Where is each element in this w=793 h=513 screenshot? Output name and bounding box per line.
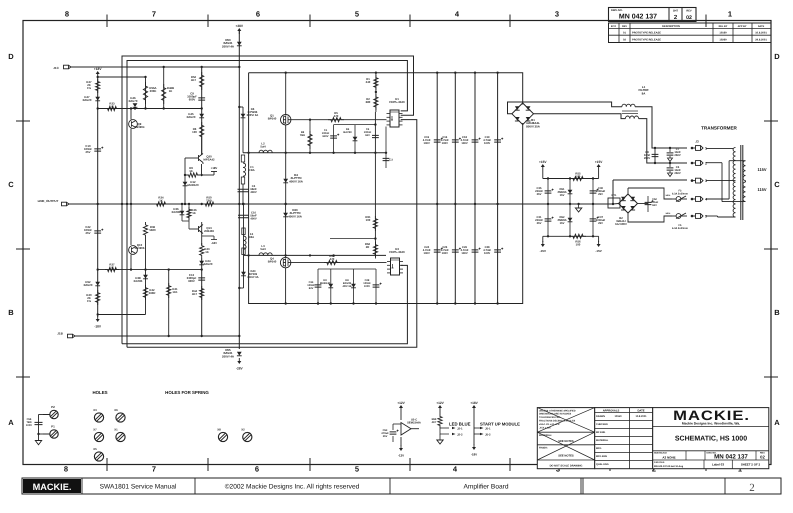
diode D24 BAV20 bbox=[199, 261, 204, 265]
resistor R50 TBD on line output bbox=[203, 202, 216, 206]
connector J3 pin 1 bbox=[693, 147, 696, 149]
diode D50 BAV21 bbox=[237, 42, 242, 46]
svg-text:MFG: MFG bbox=[596, 447, 601, 450]
zener D52B ZMM15 bbox=[569, 204, 571, 236]
wire loop bottom inner bbox=[127, 120, 417, 348]
svg-text:29.8.2001: 29.8.2001 bbox=[755, 39, 767, 42]
wire LED J2-2 bbox=[440, 428, 449, 434]
capacitor C8 10nF 250V bbox=[654, 148, 656, 163]
transistor Q13 2N5406 bbox=[201, 222, 203, 245]
svg-text:600V/ 3A: 600V/ 3A bbox=[247, 276, 258, 279]
-15V arrow left bbox=[542, 236, 544, 242]
svg-text:Label 03: Label 03 bbox=[712, 463, 724, 467]
svg-text:MF ENG: MF ENG bbox=[596, 431, 605, 434]
capacitor C37 2200uF bbox=[592, 204, 594, 236]
title block approvals table bbox=[595, 408, 653, 469]
resistor R36 5600 bbox=[143, 222, 147, 238]
svg-text:REV: REV bbox=[622, 25, 627, 28]
wire B2 to C52 bbox=[638, 203, 649, 205]
svg-text:35V: 35V bbox=[383, 435, 388, 438]
wire AC line lower to bridge bbox=[534, 114, 626, 119]
wire lower pair to Q13 base bbox=[182, 220, 189, 222]
svg-text:HCPL-3120: HCPL-3120 bbox=[389, 100, 405, 104]
svg-text:X3: X3 bbox=[93, 408, 97, 412]
capacitor C22 100nF bbox=[94, 231, 101, 233]
svg-text:TRANSFORMER: TRANSFORMER bbox=[701, 126, 737, 131]
svg-text:SWA1801 Service Manual: SWA1801 Service Manual bbox=[100, 484, 177, 491]
wire R61 junction branch bbox=[330, 238, 375, 240]
svg-text:BAT85: BAT85 bbox=[172, 210, 181, 214]
svg-text:BAV99: BAV99 bbox=[343, 131, 352, 134]
wire J3 pin2 to secondary bottom bbox=[706, 162, 722, 164]
diode D12 MUR120 bbox=[183, 182, 188, 186]
svg-text:25V: 25V bbox=[598, 193, 603, 196]
svg-text:±1/64 .XX ±.01 ±0.5°: ±1/64 .XX ±.01 ±0.5° bbox=[539, 423, 560, 426]
svg-text:240: 240 bbox=[366, 80, 371, 84]
capacitor C10 100nF bbox=[94, 149, 101, 151]
capacitor column x=455.3 wire bbox=[454, 73, 456, 304]
svg-text:5uH: 5uH bbox=[260, 247, 265, 251]
bridge rectifier B2 GBU4J bbox=[619, 194, 638, 213]
capacitor C7 10nF chassis bbox=[669, 148, 671, 152]
resistor R6 100 bbox=[200, 122, 204, 140]
svg-text:25V: 25V bbox=[537, 222, 542, 225]
title block size-scale row bbox=[653, 450, 769, 452]
-28V supply arrow bbox=[237, 361, 241, 364]
svg-text:HCPL-3120: HCPL-3120 bbox=[389, 250, 405, 254]
svg-text:J5-1: J5-1 bbox=[485, 427, 491, 431]
transistor Q10 2N3906 bbox=[130, 204, 132, 245]
svg-text:680: 680 bbox=[366, 100, 371, 104]
svg-text:2: 2 bbox=[705, 162, 707, 166]
svg-text:400V/ 16A: 400V/ 16A bbox=[288, 214, 303, 218]
inductor L2 5uH on rail bbox=[259, 150, 272, 153]
resistor R56A 300K bbox=[145, 77, 147, 109]
resistor R40 2K bbox=[96, 290, 100, 305]
svg-text:APP BY: APP BY bbox=[738, 25, 747, 28]
+18V tap at Q30 bbox=[213, 172, 215, 176]
svg-text:Mackie Designs Inc. Woodinv: Mackie Designs Inc. Woodinville, Wa. bbox=[682, 422, 740, 426]
svg-text:©2002 Mackie Designs Inc. All: ©2002 Mackie Designs Inc. All rights res… bbox=[225, 484, 360, 491]
svg-text:X5: X5 bbox=[93, 447, 97, 451]
svg-text:300K: 300K bbox=[150, 89, 157, 93]
title block sheet row bbox=[703, 460, 705, 469]
wire y=314.5 bottom-left bbox=[98, 314, 146, 316]
capacitor C25 4.7mF bbox=[452, 250, 459, 252]
svg-text:100V: 100V bbox=[364, 285, 370, 288]
svg-text:SEE NOTES: SEE NOTES bbox=[558, 454, 574, 457]
svg-text:P1: P1 bbox=[51, 425, 55, 429]
wire J3 pin3 to primary center tap bbox=[706, 180, 736, 182]
svg-text:TOLERANCES PER:: TOLERANCES PER: bbox=[539, 416, 561, 419]
svg-text:UNLESS OTHERWISE SPECIFIED: UNLESS OTHERWISE SPECIFIED bbox=[539, 409, 576, 412]
svg-text:LINE_OUTPUT: LINE_OUTPUT bbox=[38, 199, 59, 203]
svg-text:J2-2: J2-2 bbox=[457, 433, 463, 437]
module upper rail y=152.8 bbox=[243, 152, 386, 154]
svg-text:250V: 250V bbox=[644, 157, 650, 160]
capacitor C6 10nF chassis bbox=[669, 163, 671, 167]
svg-text:SEE NOTES: SEE NOTES bbox=[558, 440, 574, 443]
svg-text:1K: 1K bbox=[169, 89, 173, 93]
svg-text:.XXX ±.005: .XXX ±.005 bbox=[539, 426, 551, 429]
svg-text:100V: 100V bbox=[484, 252, 490, 255]
svg-text:A: A bbox=[8, 418, 14, 427]
capacitor column x=475 wire bbox=[474, 73, 476, 304]
diode D36 BAT85 lower pair bbox=[181, 204, 183, 221]
transformer primary winding bbox=[706, 147, 733, 149]
svg-text:+18V: +18V bbox=[211, 166, 218, 170]
svg-text:MUR120: MUR120 bbox=[187, 183, 198, 187]
resistor R47 bbox=[96, 79, 100, 93]
-12V arrow LED driver bbox=[400, 437, 402, 446]
svg-text:J1C: J1C bbox=[53, 66, 59, 70]
svg-text:SEM2344A: SEM2344A bbox=[407, 422, 421, 425]
svg-text:15V: 15V bbox=[560, 222, 565, 225]
svg-text:100V: 100V bbox=[424, 252, 430, 255]
svg-text:600V/ 3A: 600V/ 3A bbox=[247, 113, 259, 117]
wire L1 to J3 pin1 bbox=[635, 107, 687, 148]
svg-text:+12V: +12V bbox=[436, 401, 444, 405]
snubber resistor R8 upper bbox=[309, 120, 311, 153]
resistor R2 680 bbox=[374, 94, 378, 110]
svg-text:1K: 1K bbox=[189, 169, 193, 173]
wire J3 pin4 to secondary top bbox=[706, 198, 729, 200]
svg-text:MN 042 137: MN 042 137 bbox=[619, 14, 657, 21]
svg-text:C: C bbox=[774, 180, 780, 189]
svg-text:5: 5 bbox=[355, 10, 359, 19]
svg-text:25V: 25V bbox=[86, 231, 91, 235]
diode D55 BAV21 bbox=[237, 352, 242, 356]
diode D6 BYW96 bbox=[239, 106, 243, 108]
svg-text:3: 3 bbox=[705, 179, 707, 183]
diode D30 ZLPT7N lower bbox=[283, 213, 288, 217]
svg-text:470: 470 bbox=[330, 257, 335, 261]
resistor R61 100 mid column bbox=[373, 216, 377, 231]
svg-text:wire: wire bbox=[666, 194, 671, 197]
capacitor C16 4.7mF bbox=[452, 140, 459, 142]
svg-text:HOLES: HOLES bbox=[92, 390, 107, 395]
svg-text:5: 5 bbox=[355, 465, 359, 474]
wire LINE_OUTPUT main horizontal bbox=[69, 203, 613, 205]
svg-text:100V: 100V bbox=[424, 142, 430, 145]
svg-text:TBD: TBD bbox=[206, 199, 212, 203]
resistor R44 4K7 bbox=[200, 286, 204, 300]
bridge rectifier B1 GBU8A bbox=[512, 103, 534, 125]
svg-text:+28V: +28V bbox=[236, 24, 244, 28]
svg-text:25V: 25V bbox=[598, 222, 603, 225]
capacitor C18 4.7mF bbox=[472, 140, 479, 142]
svg-text:X7: X7 bbox=[93, 428, 97, 432]
capacitor C5 100nF on mid column bbox=[374, 112, 376, 241]
resistor R65 4K7 bbox=[438, 414, 442, 428]
-18V tap at Q13 bbox=[202, 235, 214, 237]
svg-text:BAV20: BAV20 bbox=[84, 283, 93, 287]
+12V arrow LED driver bbox=[399, 405, 403, 408]
svg-text:J2-1: J2-1 bbox=[457, 427, 463, 431]
svg-text:400/ 1B: 400/ 1B bbox=[342, 285, 351, 288]
svg-text:MATERIAL:: MATERIAL: bbox=[539, 434, 552, 437]
svg-text:BAV20: BAV20 bbox=[83, 98, 92, 102]
svg-text:Amplifier Board: Amplifier Board bbox=[463, 484, 508, 491]
svg-text:BAV70: BAV70 bbox=[129, 99, 138, 103]
wire Q1 drain to bus bbox=[285, 73, 287, 115]
svg-text:MACKIE.: MACKIE. bbox=[33, 482, 72, 492]
svg-text:200V/ 4A: 200V/ 4A bbox=[222, 354, 235, 358]
column x=201.7 vertical wire bbox=[201, 67, 203, 155]
diode D52 BAV20 bbox=[95, 282, 100, 286]
footer bar bbox=[22, 478, 781, 494]
ground symbol PSU bbox=[578, 204, 580, 208]
capacitor C35 220nF bbox=[547, 179, 549, 205]
diode D43 BY299 return bbox=[243, 255, 245, 288]
capacitor column x=437.2 wire bbox=[436, 73, 438, 304]
svg-text:MN 042 137: MN 042 137 bbox=[714, 453, 748, 460]
svg-text:10169: 10169 bbox=[719, 31, 727, 34]
PSU center line dots bbox=[547, 203, 549, 205]
svg-text:1K: 1K bbox=[192, 211, 196, 215]
svg-text:200V/ 4A: 200V/ 4A bbox=[222, 44, 235, 48]
wire AC line upper to bridge bbox=[508, 102, 622, 114]
svg-text:8: 8 bbox=[65, 10, 69, 19]
capacitor column x=497.6 wire bbox=[497, 73, 499, 304]
wire to fuse F3 bbox=[627, 188, 629, 194]
svg-text:F8A: F8A bbox=[249, 168, 254, 172]
capacitor C3 100nF upper bbox=[385, 127, 387, 169]
svg-text:1K: 1K bbox=[110, 266, 114, 270]
svg-text:A3 NONE: A3 NONE bbox=[662, 455, 675, 459]
wire Q30 base left bbox=[185, 157, 199, 159]
svg-text:BP540: BP540 bbox=[268, 117, 277, 121]
svg-text:5: 5 bbox=[705, 215, 707, 219]
svg-text:SCHEMATIC, HS 1000: SCHEMATIC, HS 1000 bbox=[675, 436, 747, 443]
svg-text:DATE: DATE bbox=[758, 25, 765, 28]
svg-text:100: 100 bbox=[192, 130, 197, 134]
wire startup J5-2 bbox=[480, 433, 484, 435]
svg-text:HOLES FOR SPRING: HOLES FOR SPRING bbox=[165, 390, 209, 395]
capacitor C28 4.7mF bbox=[494, 250, 501, 252]
svg-text:DATE: DATE bbox=[637, 409, 644, 412]
svg-text:02: 02 bbox=[686, 15, 692, 21]
PSU top rail bbox=[543, 178, 599, 180]
snubber capacitor C34 lower bbox=[317, 269, 319, 304]
svg-text:MFG ENG: MFG ENG bbox=[596, 455, 607, 458]
resistor R1 240 bbox=[375, 73, 377, 112]
svg-text:QUAL ENG: QUAL ENG bbox=[596, 463, 609, 466]
capacitor C19 4.7mF bbox=[494, 140, 501, 142]
svg-text:D: D bbox=[774, 52, 780, 61]
connector J3 pin 3 bbox=[693, 180, 696, 182]
svg-text:25V: 25V bbox=[86, 150, 91, 154]
svg-text:-18V: -18V bbox=[471, 453, 477, 457]
svg-text:2R: 2R bbox=[366, 245, 370, 249]
svg-text:100V: 100V bbox=[484, 142, 490, 145]
svg-text:-15V: -15V bbox=[595, 249, 601, 253]
svg-text:-18V: -18V bbox=[94, 325, 102, 329]
wire y=269.6 lower row bbox=[98, 269, 202, 271]
-18V supply arrow bbox=[97, 315, 99, 318]
svg-text:1: 1 bbox=[728, 10, 732, 19]
svg-text:MUR140: MUR140 bbox=[320, 282, 331, 285]
svg-text:+15V: +15V bbox=[539, 160, 547, 164]
inductor L3 5uH on rail bbox=[259, 253, 272, 256]
resistor R68 470 bbox=[324, 261, 340, 265]
svg-text:100: 100 bbox=[576, 175, 581, 179]
svg-text:1K: 1K bbox=[205, 250, 209, 254]
wire B2 bottom to fuse F5 bbox=[628, 213, 672, 222]
+18V supply arrow bbox=[96, 71, 100, 74]
svg-text:CHECKED: CHECKED bbox=[596, 423, 608, 426]
svg-text:-28V: -28V bbox=[236, 367, 244, 371]
capacitor C53 470uF bbox=[393, 423, 401, 425]
svg-text:-18V: -18V bbox=[211, 241, 217, 245]
svg-text:600V: 600V bbox=[188, 279, 195, 283]
frame row ticks left bbox=[16, 120, 30, 122]
svg-text:800V/ 35A: 800V/ 35A bbox=[526, 124, 541, 128]
svg-text:BAV20: BAV20 bbox=[187, 115, 196, 119]
svg-text:P2: P2 bbox=[51, 405, 55, 409]
wire J3 pin3 from line output bbox=[613, 179, 687, 181]
svg-text:100: 100 bbox=[576, 243, 581, 247]
svg-text:CAD FILE:: CAD FILE: bbox=[654, 461, 665, 464]
svg-text:REL BY: REL BY bbox=[719, 25, 728, 28]
resistor R56 100 bbox=[570, 234, 586, 238]
svg-text:F8A: F8A bbox=[249, 235, 254, 239]
svg-text:1K: 1K bbox=[159, 199, 163, 203]
op-amp U2-C bbox=[401, 423, 411, 436]
connector J3 pin 2 bbox=[693, 162, 696, 164]
+12V arrow LED resistor bbox=[438, 405, 442, 408]
svg-text:1K: 1K bbox=[110, 105, 114, 109]
svg-text:02: 02 bbox=[760, 455, 765, 460]
svg-text:FINISH:: FINISH: bbox=[539, 446, 548, 449]
-18V arrow startup bbox=[472, 447, 476, 450]
resistor R41 1K1 bbox=[168, 270, 170, 336]
snubber diode D8 BAV99 lower bbox=[353, 269, 355, 304]
ground symbol LED bbox=[439, 434, 441, 440]
fuse F4 F8A bbox=[242, 228, 245, 235]
svg-text:+12V: +12V bbox=[397, 401, 405, 405]
zener D51 ZMM15 bbox=[569, 179, 571, 205]
frame column ticks top bbox=[106, 15, 108, 28]
wire y=108.5 left row bbox=[98, 108, 202, 110]
title strip DWG NO box bbox=[609, 8, 697, 22]
svg-text:DIMENSIONS ARE IN INCHES: DIMENSIONS ARE IN INCHES bbox=[539, 413, 572, 416]
wire secondary junction bbox=[745, 181, 747, 182]
-15V arrow right bbox=[598, 236, 600, 242]
capacitor C24 4.7mF bbox=[434, 250, 441, 252]
svg-text:15V: 15V bbox=[560, 194, 565, 197]
title block notes box bbox=[537, 408, 594, 469]
revision table bbox=[609, 23, 772, 43]
resistor R52 4K7 bbox=[200, 72, 204, 90]
svg-text:D: D bbox=[8, 52, 14, 61]
diode D38 BAT85 bbox=[145, 270, 147, 315]
svg-text:6.3A 5x20mm: 6.3A 5x20mm bbox=[672, 227, 689, 230]
svg-text:400V: 400V bbox=[250, 191, 256, 194]
svg-text:X1: X1 bbox=[114, 428, 118, 432]
svg-text:560R: 560R bbox=[149, 291, 156, 295]
svg-text:J5-2: J5-2 bbox=[485, 433, 491, 437]
rail x=97.7 vertical bbox=[97, 77, 99, 315]
svg-text:SHT: SHT bbox=[673, 10, 679, 13]
resistor R55 100 bbox=[570, 176, 586, 180]
svg-text:B: B bbox=[8, 308, 14, 317]
svg-text:J3: J3 bbox=[695, 140, 699, 144]
svg-text:1K1: 1K1 bbox=[172, 290, 178, 294]
svg-text:FRACTIONS DECIMALS ANGLES: FRACTIONS DECIMALS ANGLES bbox=[539, 420, 576, 423]
wire LED J2-1 bbox=[440, 427, 449, 429]
power rail +28V vertical bbox=[238, 31, 240, 349]
snubber diode D5 BAV99 upper bbox=[354, 125, 356, 153]
svg-text:SHEET 2 OF 2: SHEET 2 OF 2 bbox=[741, 463, 761, 467]
wire J1B horizontal bbox=[75, 335, 239, 337]
wire Q4 gate to U3 bbox=[291, 262, 387, 264]
capacitor C56 on link bbox=[35, 422, 43, 424]
snubber diode D9 MUR140 lower bbox=[330, 269, 332, 304]
negative rail bus y=303.5 bbox=[249, 73, 523, 304]
svg-text:BAV20: BAV20 bbox=[204, 262, 213, 266]
svg-text:+15V: +15V bbox=[595, 160, 603, 164]
module lower rail y=255.4 bbox=[244, 254, 387, 256]
resistor R34 1K on line output bbox=[154, 202, 168, 206]
resistor R62 2R bbox=[375, 241, 377, 259]
svg-text:100V: 100V bbox=[461, 252, 467, 255]
diode D4 ZLPT7N freewheel upper bbox=[285, 125, 287, 204]
transistor Q30 MPSA42 bbox=[199, 154, 204, 165]
wire snubber top rail upper bbox=[334, 124, 376, 126]
wire Q4 source to bus bbox=[285, 268, 287, 304]
svg-text:REV: REV bbox=[686, 10, 692, 13]
capacitor C9 3300pF bbox=[198, 98, 205, 100]
svg-text:-12V: -12V bbox=[398, 454, 404, 458]
wire feedback loop outer rectangle bbox=[122, 56, 414, 344]
snubber capacitor C1 upper bbox=[333, 125, 335, 153]
+15V arrow right bbox=[597, 164, 601, 167]
svg-text:100: 100 bbox=[366, 218, 371, 222]
svg-text:2: 2 bbox=[749, 482, 755, 494]
svg-text:2N5406: 2N5406 bbox=[204, 229, 214, 233]
svg-text:J1B: J1B bbox=[57, 332, 63, 336]
connector J3 pin 5 bbox=[693, 215, 696, 217]
svg-text:63V: 63V bbox=[309, 287, 314, 290]
column x=201.7 lower vertical wire bbox=[201, 204, 203, 222]
svg-text:400V: 400V bbox=[250, 218, 256, 221]
thermistor RT1 bbox=[608, 198, 620, 208]
wire J3 pin5 to primary bottom bbox=[706, 215, 718, 217]
footer MACKIE logo bbox=[23, 479, 81, 493]
svg-text:100V: 100V bbox=[26, 424, 32, 427]
svg-text:DWG NO.: DWG NO. bbox=[611, 9, 623, 12]
svg-text:5uH: 5uH bbox=[260, 145, 265, 149]
diode D46 BAV70 bbox=[133, 103, 138, 107]
svg-text:10169: 10169 bbox=[615, 415, 623, 418]
svg-text:C: C bbox=[8, 180, 14, 189]
svg-text:4K7: 4K7 bbox=[191, 78, 197, 82]
wire P1-P2 link bbox=[39, 414, 50, 416]
wire J1C to +28V rail bbox=[71, 66, 239, 68]
svg-text:100V: 100V bbox=[442, 252, 448, 255]
svg-text:X2: X2 bbox=[241, 428, 245, 432]
svg-text:10.8.2001: 10.8.2001 bbox=[635, 415, 647, 418]
wire Q13 emitter tap bbox=[201, 233, 203, 238]
capacitor C10 56nF on F4 column bbox=[243, 204, 245, 255]
svg-text:1%: 1% bbox=[87, 86, 92, 90]
svg-text:C3: C3 bbox=[390, 159, 394, 162]
svg-text:4: 4 bbox=[705, 198, 707, 202]
svg-text:250V: 250V bbox=[674, 172, 680, 175]
diode D45 BAV20 bbox=[199, 114, 204, 118]
resistor R42 560R bbox=[143, 285, 147, 300]
